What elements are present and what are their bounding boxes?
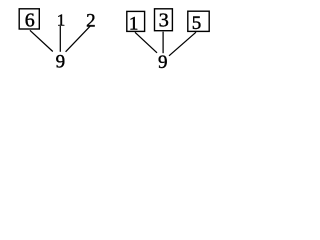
svg-text:3: 3 xyxy=(159,10,169,32)
svg-text:9: 9 xyxy=(158,52,168,73)
wire box5 to 9 xyxy=(169,32,196,56)
wire box6 to 9 xyxy=(30,30,53,51)
wire 1 to 9 xyxy=(59,26,61,52)
wire box3 to 9 xyxy=(162,32,164,54)
box 6 xyxy=(19,9,39,29)
svg-text:6: 6 xyxy=(25,10,35,32)
background xyxy=(0,0,223,79)
box 5 xyxy=(188,11,209,31)
box 1 xyxy=(127,11,145,31)
svg-text:9: 9 xyxy=(56,51,66,72)
wire 2 to 9 xyxy=(66,26,90,52)
wire box1 to 9 xyxy=(135,32,157,53)
svg-text:1: 1 xyxy=(57,11,66,30)
svg-text:1: 1 xyxy=(129,13,139,34)
box 3 xyxy=(155,9,173,31)
svg-text:5: 5 xyxy=(192,13,202,34)
